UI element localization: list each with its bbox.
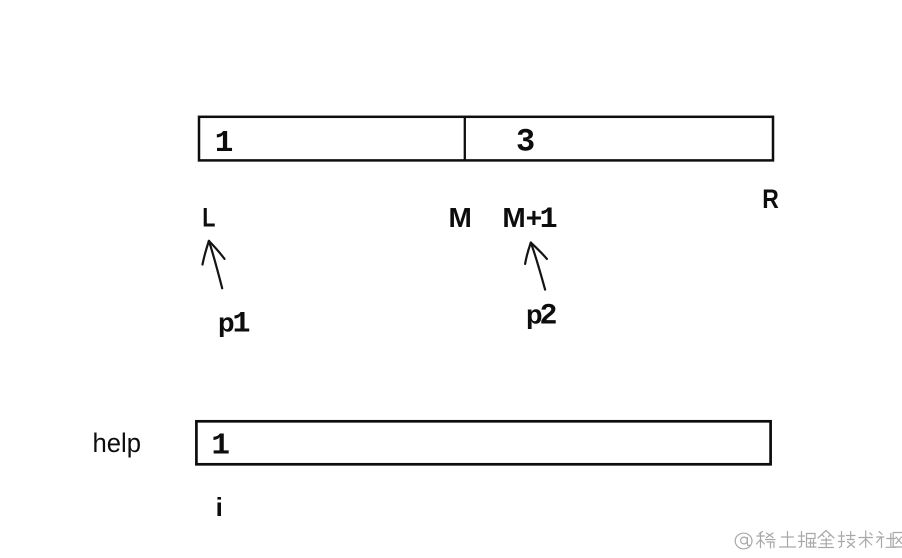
watermark 稀 — [757, 532, 776, 549]
array box (top) — [199, 117, 773, 161]
svg-text:1: 1 — [215, 126, 234, 161]
help array box (bottom) — [196, 421, 770, 464]
svg-text:p1: p1 — [218, 308, 251, 342]
watermark @ — [735, 533, 752, 549]
svg-text:help: help — [93, 427, 141, 458]
svg-text:i: i — [216, 492, 223, 522]
watermark 土 — [780, 532, 796, 548]
svg-text:1: 1 — [211, 429, 230, 464]
svg-text:M+1: M+1 — [502, 202, 557, 237]
svg-text:L: L — [202, 203, 215, 233]
watermark 掘 — [799, 532, 817, 548]
watermark 金 — [818, 531, 834, 548]
divider between M and M+1 cells — [464, 117, 466, 161]
svg-text:R: R — [762, 184, 779, 214]
arrow p1 — [203, 241, 225, 288]
watermark 区 (clipped at right edge) — [893, 533, 902, 548]
svg-text:3: 3 — [516, 124, 535, 161]
watermark 技 — [839, 532, 856, 548]
watermark @稀土掘金技术社区 — [735, 531, 902, 549]
svg-text:M: M — [449, 202, 472, 233]
arrow p2 — [525, 243, 547, 290]
watermark 社 — [877, 532, 896, 548]
watermark 术 — [859, 531, 873, 548]
svg-text:p2: p2 — [526, 300, 558, 334]
